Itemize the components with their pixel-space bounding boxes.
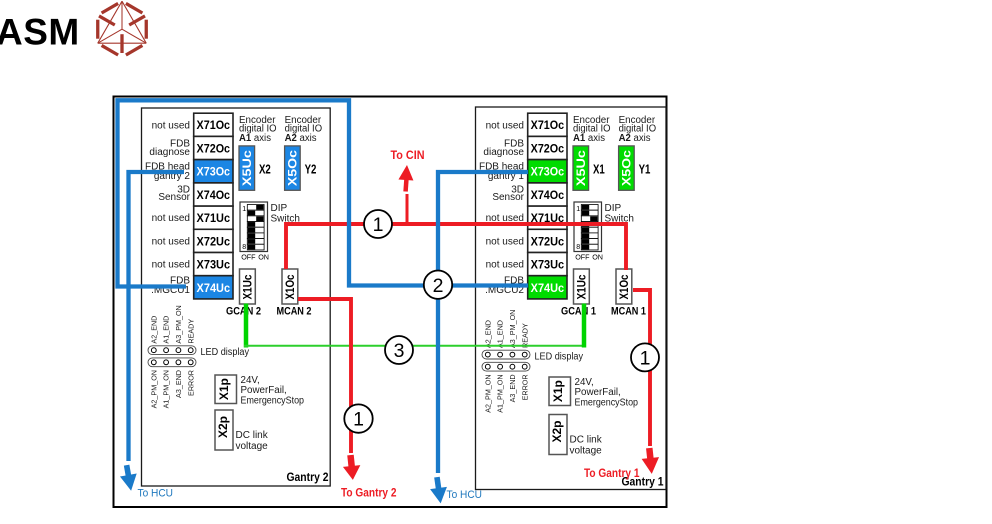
svg-text:X74Oc: X74Oc xyxy=(197,188,231,202)
svg-text:X5Uc: X5Uc xyxy=(240,150,254,187)
svg-text:Y2: Y2 xyxy=(305,162,317,176)
svg-text:X71Uc: X71Uc xyxy=(197,211,231,225)
svg-text:not used: not used xyxy=(152,120,190,131)
svg-text:A2_PM_ON: A2_PM_ON xyxy=(483,374,492,412)
DIP switch pos 4 OFF xyxy=(247,222,264,228)
svg-text:EmergencyStop: EmergencyStop xyxy=(575,397,639,408)
DIP switch pos 7 OFF xyxy=(581,239,598,245)
svg-text:X71Oc: X71Oc xyxy=(197,118,231,132)
GANTRY 2 BOX CONTENT xyxy=(145,113,329,484)
svg-text:ERROR: ERROR xyxy=(520,374,529,400)
connector X72Uc xyxy=(194,229,233,252)
svg-text:A1 axis: A1 axis xyxy=(573,133,605,144)
svg-text:X72Oc: X72Oc xyxy=(197,141,231,155)
connector X73Uc xyxy=(528,253,567,276)
wire: red MCAN1 to Gantry 1 xyxy=(633,290,650,446)
svg-text:To HCU: To HCU xyxy=(138,488,174,500)
svg-text:A2 axis: A2 axis xyxy=(285,133,317,144)
svg-text:LED display: LED display xyxy=(535,351,584,362)
svg-text:X74Uc: X74Uc xyxy=(531,281,565,295)
wire: green GCAN2-GCAN1 link xyxy=(244,304,586,348)
svg-text:Sensor: Sensor xyxy=(158,192,190,203)
DIP switch pos 1 OFF xyxy=(581,205,598,211)
svg-text:A3_PM_ON: A3_PM_ON xyxy=(508,310,517,348)
svg-text:not used: not used xyxy=(486,260,524,271)
svg-text:1: 1 xyxy=(576,206,580,213)
svg-text:ON: ON xyxy=(592,253,603,262)
connector X71Oc xyxy=(194,113,233,136)
DIP switch pos 2 OFF xyxy=(247,210,264,216)
DIP switch pos 5 OFF xyxy=(581,227,598,233)
connector X1Uc xyxy=(240,269,256,304)
svg-text:not used: not used xyxy=(152,213,190,224)
connector X5Oc xyxy=(619,146,635,190)
svg-text:X71Oc: X71Oc xyxy=(531,118,565,132)
svg-text:A1_END: A1_END xyxy=(162,316,171,344)
connector X5Uc xyxy=(573,146,589,190)
wire: red To CIN branch xyxy=(406,194,409,224)
svg-text:diagnose: diagnose xyxy=(483,147,524,158)
svg-text:X73Oc: X73Oc xyxy=(197,165,231,179)
arrow: To Gantry 2 xyxy=(342,454,362,481)
Gantry 2 box xyxy=(142,108,331,486)
connector X72Uc xyxy=(528,229,567,252)
svg-text:OFF: OFF xyxy=(575,253,590,262)
connector X5Uc xyxy=(239,146,255,190)
svg-text:X72Uc: X72Uc xyxy=(197,234,231,248)
svg-text:X5Oc: X5Oc xyxy=(620,150,634,187)
svg-text:X73Uc: X73Uc xyxy=(531,258,565,272)
svg-text:A3_PM_ON: A3_PM_ON xyxy=(174,305,183,343)
svg-text:To HCU: To HCU xyxy=(447,489,483,501)
svg-text:1: 1 xyxy=(353,409,364,431)
connector X1Uc xyxy=(574,269,590,304)
DIP switch pos 7 OFF xyxy=(247,239,264,245)
svg-text:EmergencyStop: EmergencyStop xyxy=(241,395,305,406)
svg-text:X2p: X2p xyxy=(218,416,230,438)
connector X73Oc xyxy=(528,160,567,183)
svg-text:X73Uc: X73Uc xyxy=(197,258,231,272)
svg-text:To Gantry 1: To Gantry 1 xyxy=(584,468,640,480)
svg-text:READY: READY xyxy=(186,319,195,344)
svg-text:OFF: OFF xyxy=(241,253,256,262)
svg-text:ON: ON xyxy=(258,253,269,262)
svg-text:READY: READY xyxy=(520,323,529,348)
DIP switch Gantry 1 xyxy=(574,202,602,252)
svg-text:A1_PM_ON: A1_PM_ON xyxy=(496,374,505,412)
DIP switch pos 4 OFF xyxy=(581,222,598,228)
svg-text:X5Uc: X5Uc xyxy=(574,150,588,187)
svg-text:A1_END: A1_END xyxy=(496,320,505,348)
svg-text:not used: not used xyxy=(152,236,190,247)
svg-text:GCAN 2: GCAN 2 xyxy=(226,306,261,318)
connector X72Oc xyxy=(194,136,233,159)
svg-text:To Gantry 2: To Gantry 2 xyxy=(341,488,397,500)
svg-text:GCAN 1: GCAN 1 xyxy=(561,306,596,318)
DIP switch pos 3 ON xyxy=(581,216,598,222)
DIP switch pos 6 OFF xyxy=(247,233,264,239)
node 3 circle on green link xyxy=(385,336,413,364)
connector X74Oc xyxy=(194,183,233,206)
LED display Gantry 1 xyxy=(482,350,530,359)
DIP switch pos 2 OFF xyxy=(581,210,598,216)
svg-text:DC link: DC link xyxy=(570,435,603,446)
svg-text:not used: not used xyxy=(486,236,524,247)
connector X73Uc xyxy=(194,253,233,276)
svg-text:X2: X2 xyxy=(259,162,271,176)
wire: red CAN bus MCAN2-MCAN1 xyxy=(286,224,626,270)
connector X74Uc xyxy=(528,276,567,299)
wire: red MCAN2 to Gantry 2 xyxy=(298,299,351,453)
svg-text:X2p: X2p xyxy=(552,421,564,443)
svg-text:A2_END: A2_END xyxy=(149,316,158,344)
DIP switch pos 5 OFF xyxy=(247,227,264,233)
DIP switch pos 6 OFF xyxy=(581,233,598,239)
outer frame xyxy=(114,97,667,508)
svg-text:diagnose: diagnose xyxy=(149,147,190,158)
svg-text:X73Oc: X73Oc xyxy=(531,165,565,179)
connector X71Oc xyxy=(528,113,567,136)
svg-text:X5Oc: X5Oc xyxy=(286,150,300,187)
svg-text:X1Uc: X1Uc xyxy=(577,274,589,300)
LED display Gantry 2 xyxy=(148,346,196,355)
svg-text:A1 axis: A1 axis xyxy=(239,133,271,144)
svg-text:X72Uc: X72Uc xyxy=(531,234,565,248)
svg-text:To CIN: To CIN xyxy=(391,150,425,162)
svg-text:X1Oc: X1Oc xyxy=(619,274,631,300)
GANTRY 1 BOX CONTENT xyxy=(479,113,664,488)
svg-text:1: 1 xyxy=(242,206,246,213)
svg-text:DC link: DC link xyxy=(236,430,269,441)
svg-text:2: 2 xyxy=(433,275,444,297)
connector X2p xyxy=(549,415,567,455)
svg-text:A2 axis: A2 axis xyxy=(619,133,651,144)
svg-text:A2_PM_ON: A2_PM_ON xyxy=(149,370,158,408)
wire: blue X74Uc link MGCU1-MGCU2 xyxy=(118,100,529,286)
svg-text:Gantry 2: Gantry 2 xyxy=(287,470,329,484)
svg-text:X1p: X1p xyxy=(553,380,565,402)
connector X74Oc xyxy=(528,183,567,206)
arrow: To Gantry 1 xyxy=(641,447,661,475)
svg-text:MCAN 1: MCAN 1 xyxy=(611,306,646,318)
svg-text:ERROR: ERROR xyxy=(186,370,195,396)
node 1 circle on CAN bus xyxy=(364,210,392,238)
node 1 circle on Gantry2 drop xyxy=(344,404,372,432)
svg-text:not used: not used xyxy=(152,260,190,271)
svg-text:X1Oc: X1Oc xyxy=(285,274,297,300)
svg-text:LED display: LED display xyxy=(201,347,250,358)
connector X72Oc xyxy=(528,136,567,159)
connector X1p xyxy=(549,377,571,406)
connector X71Uc xyxy=(194,206,233,229)
svg-text:voltage: voltage xyxy=(570,446,603,457)
connector X71Uc xyxy=(528,206,567,229)
svg-text:MCAN 2: MCAN 2 xyxy=(277,306,312,318)
svg-text:DIP: DIP xyxy=(271,203,288,214)
wire: blue X73Oc Gantry2 to HCU xyxy=(129,172,185,461)
svg-text:X72Oc: X72Oc xyxy=(531,141,565,155)
connector X1Oc xyxy=(282,269,298,304)
arrow: To CIN xyxy=(398,165,415,192)
DIP switch pos 1 ON xyxy=(247,205,264,211)
connector X1p xyxy=(215,375,237,404)
node 1 circle on Gantry1 drop xyxy=(631,343,659,371)
ASM logo hexagon emblem xyxy=(98,1,147,55)
DIP switch pos 8 OFF xyxy=(247,244,264,250)
svg-text:A3_END: A3_END xyxy=(508,374,517,402)
connector X2p xyxy=(215,410,233,450)
Gantry 1 box xyxy=(476,107,667,490)
svg-text:X1p: X1p xyxy=(219,378,231,400)
connector X5Oc xyxy=(285,146,301,190)
svg-text:Y1: Y1 xyxy=(639,162,651,176)
svg-text:X1: X1 xyxy=(593,162,605,176)
svg-text:8: 8 xyxy=(242,244,246,251)
connector X74Uc xyxy=(194,276,233,299)
node 2 circle on blue link xyxy=(424,271,452,299)
connector X73Oc xyxy=(194,160,233,183)
arrow: To HCU right xyxy=(429,476,450,505)
svg-text:not used: not used xyxy=(486,120,524,131)
svg-text:X1Uc: X1Uc xyxy=(243,274,255,300)
svg-text:voltage: voltage xyxy=(236,441,269,452)
DIP switch Gantry 2 xyxy=(240,202,268,252)
svg-text:Sensor: Sensor xyxy=(492,192,524,203)
svg-text:8: 8 xyxy=(576,244,580,251)
svg-text:3: 3 xyxy=(394,340,405,362)
svg-text:1: 1 xyxy=(373,214,384,236)
svg-text:A3_END: A3_END xyxy=(174,370,183,398)
DIP switch pos 3 ON xyxy=(247,216,264,222)
svg-text:A2_END: A2_END xyxy=(483,320,492,348)
DIP switch pos 8 OFF xyxy=(581,244,598,250)
svg-text:X74Oc: X74Oc xyxy=(531,188,565,202)
svg-text:1: 1 xyxy=(640,348,651,370)
svg-text:A1_PM_ON: A1_PM_ON xyxy=(162,370,171,408)
svg-text:ASM: ASM xyxy=(0,12,80,53)
svg-text:X74Uc: X74Uc xyxy=(197,281,231,295)
connector X1Oc xyxy=(616,269,632,304)
arrow: To HCU left xyxy=(118,464,139,493)
wire: blue X73Oc Gantry1 to HCU xyxy=(438,172,528,473)
svg-text:DIP: DIP xyxy=(605,203,622,214)
